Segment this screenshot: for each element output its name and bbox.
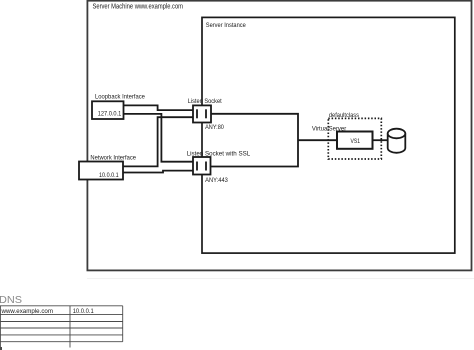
svg-text:VS1: VS1 <box>351 138 361 145</box>
wire VS1 to database <box>373 139 388 141</box>
wire loopback to ANY:80 <box>124 105 194 110</box>
svg-text:10.0.0.1: 10.0.0.1 <box>99 172 119 179</box>
svg-text:Network Interface: Network Interface <box>90 155 136 162</box>
svg-text:ANY:443: ANY:443 <box>205 177 228 184</box>
DNS table <box>0 306 123 348</box>
svg-text:Server Instance: Server Instance <box>206 22 246 29</box>
faint separator line <box>87 278 474 280</box>
wire network to ANY:80 <box>123 117 193 166</box>
database cylinder <box>388 129 406 153</box>
svg-text:www.example.com: www.example.com <box>1 308 53 315</box>
svg-text:127.0.0.1: 127.0.0.1 <box>98 111 122 118</box>
wire sockets to virtual server junction <box>211 114 299 167</box>
bottom-left fragment mark <box>0 347 2 350</box>
dashed box defaultclass <box>328 118 381 159</box>
socket ANY:80 <box>193 105 211 122</box>
socket ANY:443 <box>193 157 211 175</box>
wire loopback to ANY:443 <box>124 114 194 162</box>
socket ANY:443 pins <box>196 162 198 171</box>
svg-text:Loopback Interface: Loopback Interface <box>95 94 145 101</box>
svg-text:10.0.0.1: 10.0.0.1 <box>73 308 94 315</box>
socket ANY:80 pins <box>196 109 198 118</box>
wire junction to VS1 <box>298 139 337 141</box>
box VS1 <box>337 132 373 149</box>
svg-text:DNS: DNS <box>0 295 22 306</box>
svg-text:defaultclass: defaultclass <box>329 112 359 119</box>
outer box Server Machine <box>87 1 471 271</box>
inner box Server Instance <box>202 17 455 253</box>
svg-text:Server Machine www.example.com: Server Machine www.example.com <box>93 4 184 11</box>
wire network to ANY:443 <box>123 171 193 173</box>
box loopback interface 127.0.0.1 <box>92 101 124 119</box>
svg-text:ANY:80: ANY:80 <box>205 124 224 131</box>
box network interface 10.0.0.1 <box>79 162 123 180</box>
svg-text:Listen Socket: Listen Socket <box>188 98 222 105</box>
